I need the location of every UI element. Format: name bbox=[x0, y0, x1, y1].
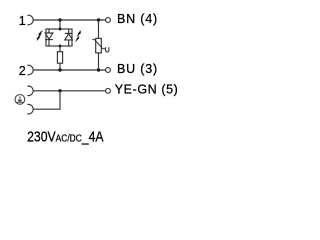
varistor RU bbox=[96, 38, 102, 53]
svg-text:2: 2 bbox=[19, 64, 26, 78]
svg-text:1: 1 bbox=[19, 14, 26, 28]
PE socket arc lower bbox=[27, 104, 33, 114]
wire: row1 to LED box bbox=[59, 20, 61, 29]
pin 2 socket arc bbox=[27, 65, 33, 75]
wire: lower PE arc to riser bbox=[34, 91, 60, 109]
svg-text:YE-GN (5): YE-GN (5) bbox=[115, 82, 179, 96]
node: PE riser joins row3 bbox=[58, 89, 61, 92]
svg-text:230VAC/DC_4A: 230VAC/DC_4A bbox=[27, 129, 104, 145]
pin 1 socket arc bbox=[27, 15, 33, 25]
node: resistor joins row2 bbox=[58, 68, 61, 71]
wire row2 BU bbox=[34, 69, 106, 71]
node: box bottom center bbox=[59, 45, 62, 48]
terminal circle row1 bbox=[106, 18, 111, 23]
PE socket arc upper bbox=[27, 86, 33, 96]
LED D2 emission arrows bbox=[75, 31, 80, 42]
wire: LED box to resistor bbox=[59, 46, 61, 52]
svg-text:BU (3): BU (3) bbox=[117, 62, 158, 76]
varistor diagonal stroke bbox=[92, 39, 105, 48]
wire: varistor to row2 bbox=[98, 53, 100, 70]
wire: resistor to row2 bbox=[59, 63, 61, 70]
wire row3 YE-GN bbox=[34, 90, 106, 92]
svg-text:BN (4): BN (4) bbox=[117, 12, 158, 26]
node: varistor branch on row1 bbox=[97, 18, 100, 21]
LED D2 (right, cathode up) bbox=[65, 29, 73, 46]
varistor label U bbox=[106, 47, 109, 52]
rating text 230VAC/DC_4A bbox=[27, 129, 104, 145]
LED D1 emission arrows bbox=[37, 31, 42, 41]
node: LED branch on row1 bbox=[58, 18, 61, 21]
LED module box bbox=[46, 29, 72, 46]
LED D1 (left, cathode down) bbox=[45, 29, 53, 46]
terminal circle row3 bbox=[106, 88, 111, 93]
wire row1 BN bbox=[34, 19, 106, 21]
terminal circle row2 bbox=[106, 68, 111, 73]
ground symbol bbox=[15, 95, 25, 105]
wire: row1 to varistor bbox=[98, 20, 100, 38]
node: box top center bbox=[59, 28, 62, 31]
resistor R1 bbox=[57, 52, 62, 64]
node: varistor joins row2 bbox=[97, 68, 100, 71]
